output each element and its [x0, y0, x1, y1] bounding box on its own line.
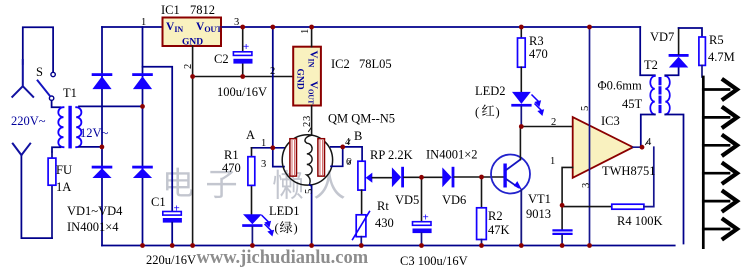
wire C3 branch [421, 177, 423, 221]
QM heater coil [305, 135, 312, 183]
svg-text:78L05: 78L05 [359, 57, 392, 71]
wire VD7/R5 top node [679, 28, 702, 37]
wire switch to T1 primary [52, 101, 61, 108]
svg-text:1: 1 [300, 29, 311, 34]
wire RP to Rt [361, 190, 363, 215]
resistor R3 [518, 27, 526, 92]
svg-text:): ) [496, 105, 500, 119]
junction QM pin5 / ground rail [309, 243, 314, 248]
svg-text:IN4001×2: IN4001×2 [426, 148, 478, 162]
svg-text:4: 4 [345, 137, 351, 148]
wire pin1 node to cap [561, 205, 563, 229]
wire top rail [102, 26, 640, 28]
svg-text:FU: FU [56, 163, 72, 177]
svg-text:1: 1 [141, 17, 146, 28]
junction IC1 GND / gnd link rail [190, 74, 195, 79]
radiation arrow 4 [703, 164, 737, 183]
svg-text:VD6: VD6 [442, 193, 466, 207]
svg-text:470: 470 [222, 161, 241, 175]
IC2 78L05 box [293, 47, 321, 106]
diode VD7 [669, 28, 689, 68]
svg-text:Φ0.6mm: Φ0.6mm [598, 79, 642, 93]
wire T2 secondary top to VD7 [665, 68, 678, 76]
svg-text:3: 3 [261, 159, 266, 170]
svg-text:IC3: IC3 [601, 114, 620, 128]
svg-text:S: S [36, 65, 43, 79]
svg-text:R5: R5 [709, 33, 724, 47]
potentiometer RP body [358, 161, 365, 190]
watermark 电子懒人 [166, 168, 345, 199]
svg-text:): ) [294, 221, 298, 235]
svg-text:3: 3 [234, 17, 239, 28]
junction LED2 / VT1 collector / IC3 pin2 [519, 124, 524, 129]
node plug terminal 2 [13, 144, 30, 156]
node A wiring QM pins 1,3 [252, 148, 285, 167]
diode VD5 [392, 167, 404, 188]
diode VD2 [132, 73, 153, 89]
LED1 [242, 214, 273, 245]
svg-text:A: A [246, 128, 255, 142]
svg-text:IC1: IC1 [161, 3, 180, 17]
svg-text:470: 470 [529, 47, 548, 61]
wire bottom-left to terminal 2 [21, 155, 52, 238]
svg-text:1: 1 [550, 156, 555, 167]
junction T1 secondary top / VD2-VD4 [140, 104, 145, 109]
junction +12V drop / top rail [270, 25, 275, 30]
junction IC3 pin1 / R4 / C4 [560, 203, 565, 208]
diode VD4 [132, 166, 153, 178]
radiation arrow 1 [703, 80, 737, 99]
QM electrode left [290, 139, 297, 176]
svg-text:VD5: VD5 [395, 193, 419, 207]
resistor R2 [477, 208, 487, 246]
junction VD5-VD6 / C3 [419, 175, 424, 180]
svg-text:VD1~VD4: VD1~VD4 [67, 204, 123, 218]
resistor R1 [248, 148, 255, 214]
svg-text:3: 3 [302, 116, 313, 121]
wire GND rail IC1 to IC2 [193, 76, 294, 78]
thermistor Rt [353, 212, 370, 246]
IC1 7812 regulator box [163, 18, 223, 48]
junction LED1 / ground rail [250, 243, 255, 248]
wire IC3 pin1 loop [562, 167, 573, 205]
transformer T1 core [68, 106, 71, 149]
junction IC1 GND / ground rail [190, 243, 195, 248]
svg-text:100u/16V: 100u/16V [217, 85, 267, 99]
capacitor C3 [413, 212, 432, 246]
wire R4 right to pin4 node [633, 147, 654, 206]
node plug terminal 1 [12, 60, 33, 97]
svg-text:Rt: Rt [377, 199, 389, 213]
svg-text:430: 430 [375, 216, 394, 230]
wire T2 primary bottom to pin4 node [641, 115, 655, 148]
wire +12V drop to QM electrode node [272, 27, 274, 148]
junction R3 / top rail [519, 25, 524, 30]
junction R2 / ground rail [479, 243, 484, 248]
transformer T2 primary winding [650, 76, 655, 114]
transistor VT1 [491, 155, 530, 194]
junction IC3 pin3 / ground rail [587, 243, 592, 248]
junction Rt / ground rail [359, 243, 364, 248]
svg-text:9013: 9013 [526, 207, 551, 221]
svg-text:5: 5 [580, 106, 591, 111]
svg-text:QM QM--N5: QM QM--N5 [328, 112, 395, 126]
svg-text:C3 100u/16V: C3 100u/16V [400, 254, 468, 267]
svg-text:7812: 7812 [190, 3, 215, 17]
svg-text:R3: R3 [529, 34, 544, 48]
wire LED2 node to IC3 pin2 [521, 126, 572, 128]
svg-text:2: 2 [183, 64, 194, 69]
wire T2 secondary bottom down [665, 115, 683, 244]
wire C2 branch [242, 27, 244, 77]
radiation arrow 5 [703, 192, 737, 211]
svg-text:1A: 1A [56, 180, 71, 194]
svg-text:RP 2.2K: RP 2.2K [370, 148, 413, 162]
wire bridge output to C1 [143, 67, 173, 212]
node A junction QM pins 1,3 [270, 145, 275, 150]
capacitor C1 [163, 203, 182, 246]
diode VD6 [442, 167, 454, 188]
LED2 [511, 92, 543, 127]
capacitor C4 at IC3 pin3 [554, 230, 572, 245]
radiation arrow 6 [703, 220, 737, 239]
node B wiring QM pins 4,6 [331, 147, 362, 166]
transformer T2 core dashed [659, 79, 662, 114]
wire QM pin5 to ground [310, 185, 312, 246]
svg-text:12V~: 12V~ [80, 126, 109, 140]
capacitor C2 [233, 41, 252, 64]
wire T1 secondary bottom to left bridge column [79, 146, 102, 148]
svg-text:LED1: LED1 [269, 204, 300, 218]
diode VD3 [92, 166, 113, 178]
svg-text:LED2: LED2 [475, 84, 506, 98]
wire IC2 VOUT to QM pin2 [311, 106, 313, 136]
svg-text:220V~: 220V~ [11, 114, 46, 128]
wire IC1 GND pin 2 down to ground [192, 46, 194, 246]
svg-text:T1: T1 [63, 86, 77, 100]
diode VD1 [92, 73, 113, 89]
svg-text:2: 2 [270, 66, 275, 77]
junction VT1 emitter / ground rail [519, 243, 524, 248]
wire top rail down to T2 [640, 27, 655, 75]
svg-text:47K: 47K [488, 223, 510, 237]
fuse FU body [48, 158, 56, 185]
svg-text:3: 3 [581, 183, 592, 188]
junction VD6 / R2 / VT1 base [479, 175, 484, 180]
junction C2+ / top rail [240, 25, 245, 30]
pin tick marks [309, 128, 649, 164]
svg-text:R2: R2 [488, 209, 503, 223]
svg-text:2: 2 [551, 117, 556, 128]
junction VD4 / ground rail [140, 243, 145, 248]
wire VD6 to VT1 base [454, 176, 503, 178]
svg-text:+: + [423, 212, 429, 224]
svg-text:R1: R1 [224, 148, 239, 162]
wire left bridge column [101, 27, 103, 246]
svg-text:C1: C1 [151, 195, 166, 209]
radiation arrow 2 [703, 108, 737, 127]
node B junction QM pins 4,6 [340, 145, 345, 150]
gas sensor QM circle [282, 135, 332, 185]
svg-text:45T: 45T [622, 97, 643, 111]
svg-text:VD7: VD7 [650, 30, 674, 44]
svg-text:(: ( [275, 221, 279, 235]
svg-text:4.7M: 4.7M [708, 50, 735, 64]
fuse FU wire through [51, 152, 53, 238]
potentiometer RP wiper arrow [366, 173, 392, 183]
svg-text:T2: T2 [644, 58, 658, 72]
svg-text:2: 2 [302, 122, 313, 127]
wire VT1 emitter down [520, 190, 522, 246]
junction C2- / gnd link rail [240, 74, 245, 79]
svg-text:GND: GND [295, 69, 305, 90]
resistor R5 [699, 37, 706, 77]
op-amp IC3 TWH8751 triangle [573, 117, 633, 178]
svg-text:www.jichudianlu.com: www.jichudianlu.com [197, 248, 369, 267]
wire VD5 to VD6 [404, 176, 442, 178]
junction C3- / ground rail [419, 243, 424, 248]
wire top-left loop to switch [23, 27, 53, 72]
svg-text:C2: C2 [214, 52, 229, 66]
wire IC3 pin5/pin3 vertical [589, 27, 591, 246]
svg-text:5: 5 [304, 189, 315, 194]
radiation arrow 3 [703, 136, 737, 155]
junction IC3 pin5 / top rail [587, 25, 592, 30]
QM electrode right [318, 139, 325, 176]
junction T1 secondary bottom / VD1-VD3 [100, 145, 105, 150]
transformer T2 secondary winding [665, 76, 670, 114]
wire T1 primary bottom to fuse [52, 147, 61, 152]
svg-text:220u/16V: 220u/16V [146, 253, 196, 267]
svg-text:4: 4 [646, 137, 652, 148]
switch S [51, 72, 55, 76]
svg-text:R4 100K: R4 100K [617, 214, 663, 228]
svg-text:B: B [354, 129, 362, 143]
wire IC2 pin1 from top rail [311, 27, 313, 47]
wire pin1 node to R4 [562, 206, 612, 208]
svg-text:+: + [174, 203, 180, 215]
wire R2 branch [481, 177, 483, 208]
wire right bridge column [142, 27, 144, 246]
svg-text:IN4001×4: IN4001×4 [67, 220, 119, 234]
junction C1- / ground rail [170, 243, 175, 248]
radiation arrows vertical bar [702, 77, 705, 248]
wire T1 secondary top to right bridge column [79, 105, 143, 107]
junction IC2 pin1 / top rail [309, 25, 314, 30]
transformer T1 secondary winding [76, 107, 81, 147]
wire VT1 collector up [519, 127, 521, 160]
wire bottom ground rail [102, 245, 675, 247]
svg-text:VT1: VT1 [528, 192, 551, 206]
svg-text:+: + [243, 41, 249, 53]
svg-text:(: ( [475, 105, 479, 119]
junction IC3 pin4 / T2 / R4 [640, 145, 645, 150]
resistor R4 [612, 204, 644, 209]
junction C4- / ground rail [560, 243, 565, 248]
svg-text:6: 6 [346, 157, 351, 168]
svg-text:IC2: IC2 [331, 57, 350, 71]
svg-text:TWH8751: TWH8751 [602, 164, 655, 178]
transformer T1 primary winding [58, 107, 63, 147]
svg-text:1: 1 [261, 138, 266, 149]
